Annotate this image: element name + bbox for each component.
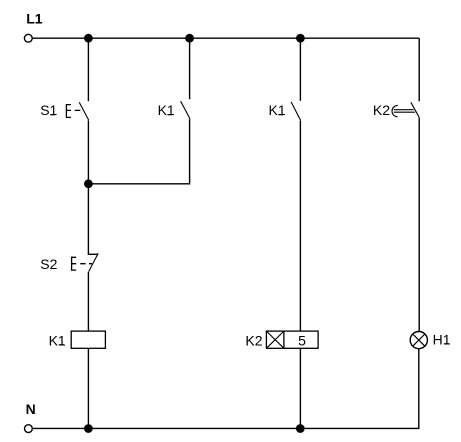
contact K2 on-delay symbol arc xyxy=(392,105,398,116)
pushbutton S2 NC contact foot xyxy=(88,184,98,255)
svg-text:S2: S2 xyxy=(40,256,57,272)
junction top rail / branch 1 xyxy=(84,34,93,43)
coil K1 box xyxy=(71,331,105,348)
wire branch2 rail to K1 contact xyxy=(189,38,191,99)
junction bottom rail / branch 3 xyxy=(296,424,305,433)
svg-text:N: N xyxy=(26,401,36,417)
timer coil K2 box xyxy=(266,331,318,348)
wire timer coil K2 to N rail xyxy=(299,348,301,428)
timer coil K2 divider xyxy=(283,331,285,348)
wire lamp H1 to N rail corner xyxy=(33,349,419,429)
svg-text:S1: S1 xyxy=(40,102,57,118)
wire branch4 rail corner down to K2 contact xyxy=(418,38,420,101)
wire coil K1 to N rail xyxy=(87,348,89,428)
wire branch3 rail to K1 contact xyxy=(299,38,301,101)
junction top rail / branch 3 xyxy=(296,34,305,43)
svg-text:5: 5 xyxy=(298,332,306,348)
wire S2 to coil K1 xyxy=(87,272,89,331)
pushbutton S2 actuator E xyxy=(72,257,92,270)
node A junction dot xyxy=(84,179,93,188)
wire top rail L1 xyxy=(33,37,420,39)
contact K2 on-delay symbol lines xyxy=(394,110,415,113)
timer coil K2 X xyxy=(266,331,284,348)
svg-text:L1: L1 xyxy=(26,10,43,26)
digit feet (Tahoma-style 1) xyxy=(36,22,42,24)
contact K2 NO blade (branch 4) xyxy=(411,102,420,118)
svg-text:K1: K1 xyxy=(269,102,286,118)
junction top rail / branch 2 xyxy=(185,34,194,43)
lamp H1 X xyxy=(413,334,425,346)
svg-text:K1: K1 xyxy=(49,332,66,348)
wire S1 to node A xyxy=(87,120,89,184)
svg-text:K1: K1 xyxy=(158,102,175,118)
node N terminal circle xyxy=(25,425,33,433)
wire branch1 rail to S1 xyxy=(87,38,89,101)
svg-text:K2: K2 xyxy=(245,332,262,348)
svg-text:K2: K2 xyxy=(373,102,390,118)
junction bottom rail / branch 1 xyxy=(84,424,93,433)
wire K1 contact to timer coil K2 xyxy=(299,121,301,332)
lamp H1 circle xyxy=(410,332,427,349)
contact K1 NO blade (branch 2) xyxy=(181,101,190,119)
wire K1 contact down and left to node A xyxy=(88,119,189,184)
svg-text:H1: H1 xyxy=(433,331,451,347)
pushbutton S1 NO contact blade xyxy=(79,102,89,120)
wire K2 contact to lamp H1 xyxy=(418,118,420,332)
contact K1 NO blade (branch 3) xyxy=(291,102,301,121)
pushbutton S1 actuator E xyxy=(66,105,80,118)
pushbutton S2 NC blade xyxy=(89,253,99,271)
node L1 terminal circle xyxy=(24,34,32,42)
